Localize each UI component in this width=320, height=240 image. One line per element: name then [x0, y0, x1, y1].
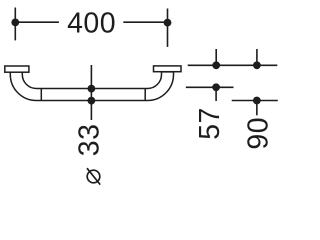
svg-text:57: 57: [194, 107, 226, 140]
svg-text:33: 33: [73, 123, 105, 156]
svg-text:400: 400: [67, 8, 116, 40]
svg-text:90: 90: [242, 117, 274, 150]
